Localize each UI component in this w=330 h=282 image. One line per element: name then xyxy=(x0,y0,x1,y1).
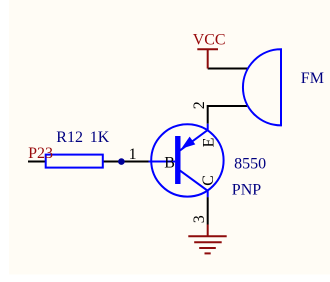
svg-text:R12: R12 xyxy=(56,129,83,146)
svg-text:8550: 8550 xyxy=(234,155,266,172)
svg-text:P23: P23 xyxy=(28,145,53,162)
svg-text:FM: FM xyxy=(301,70,324,87)
svg-text:1K: 1K xyxy=(90,129,110,146)
svg-text:2: 2 xyxy=(191,101,208,109)
svg-text:1: 1 xyxy=(129,146,137,163)
svg-text:VCC: VCC xyxy=(193,32,226,49)
svg-text:PNP: PNP xyxy=(232,182,261,199)
svg-text:C: C xyxy=(200,175,217,186)
svg-text:E: E xyxy=(201,138,218,148)
svg-text:B: B xyxy=(164,154,175,171)
svg-text:3: 3 xyxy=(191,215,208,223)
